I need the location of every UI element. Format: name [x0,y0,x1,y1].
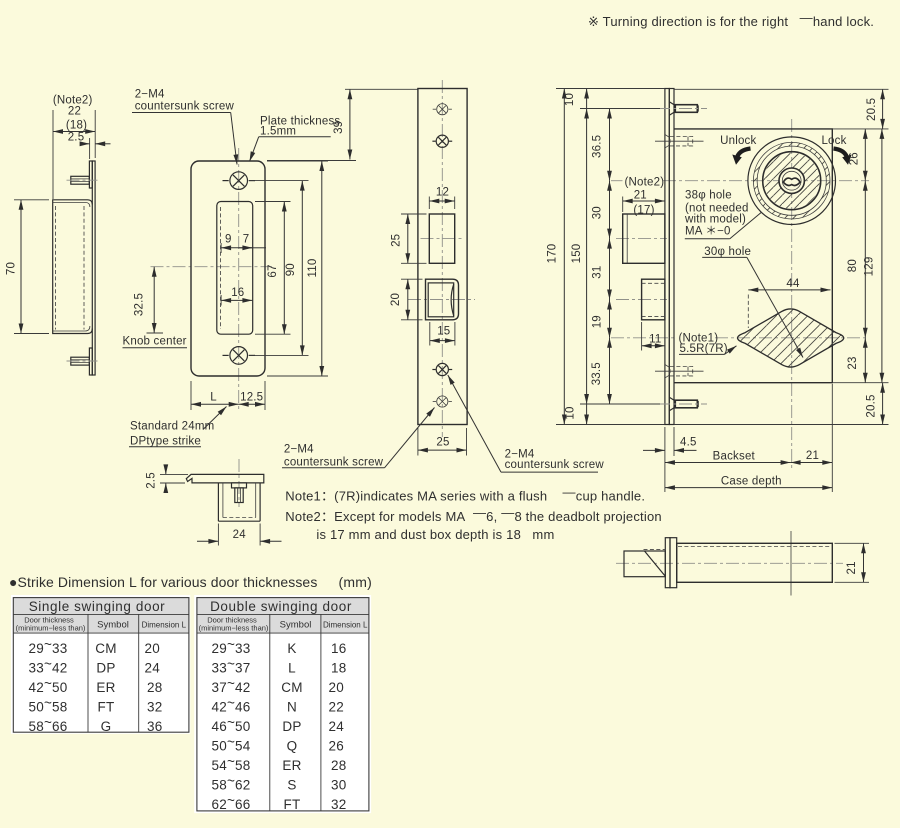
svg-text:70: 70 [6,262,18,275]
svg-text:MA ＊−0: MA ＊−0 [685,226,731,238]
svg-text:(minimum−less than): (minimum−less than) [199,624,269,633]
table 1 border [13,598,189,733]
svg-text:20: 20 [145,641,160,656]
cylinder [748,137,836,225]
svg-text:25: 25 [391,234,403,247]
dust box outline [53,200,93,334]
latch projected [642,279,665,320]
svg-text:30φ hole: 30φ hole [704,246,751,258]
svg-text:32.5: 32.5 [134,293,146,316]
svg-text:countersunk screw: countersunk screw [284,457,384,469]
svg-text:2−M4: 2−M4 [135,89,165,101]
table 2 rows [212,637,347,812]
svg-text:15: 15 [437,326,450,338]
knob centerline [151,266,273,268]
hanging screw [232,483,247,488]
latch centerline [408,299,475,301]
svg-text:Single swinging door: Single swinging door [29,599,166,614]
deadbolt projected [623,214,665,263]
bottom screw [223,347,256,365]
svg-text:2.5: 2.5 [146,472,158,489]
faceplate bars [665,89,669,425]
svg-text:4.5: 4.5 [680,436,697,448]
svg-text:30: 30 [331,778,346,793]
svg-text:30: 30 [592,206,604,219]
svg-text:DP: DP [96,661,115,676]
svg-text:Case depth: Case depth [721,475,782,487]
vertical centerline [238,148,240,410]
svg-text:Unlock: Unlock [720,135,756,147]
svg-text:FT: FT [284,797,301,812]
svg-text:12: 12 [436,187,449,199]
svg-text:23: 23 [847,356,859,369]
screw 2 (bold) [432,135,452,147]
svg-text:80: 80 [847,259,859,272]
svg-text:2−M4: 2−M4 [284,444,314,456]
cylinder axis centerline [791,119,793,468]
svg-text:Lock: Lock [821,135,846,147]
svg-text:with model): with model) [684,214,746,226]
svg-text:11: 11 [649,334,661,346]
latch centerline [616,299,667,301]
svg-text:90: 90 [285,263,297,276]
table 2 header fill [197,598,369,634]
svg-text:24: 24 [233,529,247,541]
collar rings [665,538,670,588]
deadbolt front [429,214,454,263]
svg-text:32: 32 [147,700,162,715]
screw centerline [238,459,240,507]
svg-text:44: 44 [786,278,800,290]
svg-text:28: 28 [147,680,162,695]
faceplate outline [418,89,467,425]
top screw [223,172,256,190]
table 1 rows [29,637,163,734]
svg-text:countersunk screw: countersunk screw [505,459,605,471]
svg-text:32: 32 [331,797,346,812]
svg-text:10: 10 [564,93,576,106]
svg-text:20: 20 [390,293,402,306]
svg-text:ER: ER [282,758,301,773]
svg-text:31: 31 [592,265,604,278]
svg-text:110: 110 [307,259,319,278]
svg-text:22: 22 [329,700,344,715]
table 2 white panel [194,595,371,813]
svg-text:Knob center: Knob center [123,336,187,348]
svg-text:9: 9 [225,234,232,246]
top mounting post [657,102,707,116]
svg-text:18: 18 [331,661,346,676]
bottom screw post [71,357,90,365]
svg-text:N: N [287,700,297,715]
strike plate outline [191,161,265,376]
dust box hidden lines [55,206,57,330]
svg-text:2.5: 2.5 [68,132,85,144]
svg-text:L: L [210,392,217,404]
svg-text:CM: CM [281,680,302,695]
cam centerline [611,337,676,339]
top screw (hidden) [655,135,704,148]
svg-text:20.5: 20.5 [866,98,878,121]
screw 3 (bold) [432,363,452,375]
svg-text:26: 26 [849,152,861,165]
svg-text:21: 21 [634,189,647,201]
svg-text:7: 7 [243,234,250,246]
svg-text:G: G [101,719,112,734]
svg-text:Dimension L: Dimension L [142,621,187,630]
cam tail [624,551,665,577]
svg-text:K: K [287,641,296,656]
svg-text:CM: CM [95,641,116,656]
svg-text:Double swinging door: Double swinging door [210,599,352,614]
svg-text:129: 129 [864,257,876,277]
svg-text:21: 21 [806,450,819,462]
table 2 : double swinging door [194,595,371,813]
table 1 : single swinging door [11,595,190,734]
svg-text:Q: Q [287,739,298,754]
svg-text:19: 19 [592,315,604,328]
box walls [217,483,219,521]
svg-text:28: 28 [331,758,346,773]
svg-text:(minimum−less than): (minimum−less than) [16,624,86,633]
svg-text:36: 36 [147,719,162,734]
svg-text:67: 67 [267,264,279,277]
top screw post [71,176,90,184]
top lip [89,161,92,188]
cam (hatched) [738,309,844,367]
cylinder body [677,543,833,582]
svg-text:25: 25 [436,436,449,448]
svg-text:L: L [288,661,296,676]
svg-text:5.5R(7R): 5.5R(7R) [680,343,728,355]
vertical centerline [441,80,443,437]
extension lines left [556,88,665,90]
svg-text:170: 170 [547,244,559,264]
svg-text:22: 22 [68,106,81,118]
svg-text:26: 26 [329,739,344,754]
svg-text:(Note2): (Note2) [625,177,665,189]
case outline [674,129,832,383]
svg-text:10: 10 [565,406,577,419]
svg-text:countersunk screw: countersunk screw [135,101,235,113]
svg-text:20.5: 20.5 [866,394,878,417]
table 2 border [197,598,369,811]
svg-text:12.5: 12.5 [240,391,263,403]
svg-text:FT: FT [98,700,115,715]
svg-text:39: 39 [333,121,345,134]
bottom screw (hidden) [655,365,704,378]
cylinder horizontal centerline [611,180,623,182]
svg-text:(18): (18) [66,120,87,132]
svg-text:16: 16 [331,641,346,656]
svg-text:24: 24 [145,661,161,676]
flange with lip [186,474,263,483]
svg-text:20: 20 [329,680,344,695]
table 1 header fill [13,598,189,634]
section line [790,531,792,596]
deadbolt centerline [421,238,464,240]
svg-text:21: 21 [846,561,858,574]
svg-text:(17): (17) [633,204,654,216]
svg-text:S: S [287,778,296,793]
svg-text:is 17 mm and dust box depth is: is 17 mm and dust box depth is 18 mm [316,527,554,542]
svg-text:24: 24 [329,719,345,734]
svg-text:38φ hole: 38φ hole [685,190,732,202]
svg-text:ER: ER [96,680,115,695]
svg-text:16: 16 [231,287,244,299]
svg-text:Dimension L: Dimension L [323,621,368,630]
svg-text:150: 150 [571,244,583,264]
table 1 white panel [11,595,190,734]
deadbolt centerline [616,238,667,240]
latch front [426,279,459,320]
bottom lip [89,348,92,375]
svg-text:(mm): (mm) [339,574,372,590]
hole top (plain) [433,104,452,115]
svg-text:Symbol: Symbol [97,620,129,631]
svg-text:Standard 24mm: Standard 24mm [130,421,214,433]
svg-text:DPtype strike: DPtype strike [130,436,201,448]
svg-text:1.5mm: 1.5mm [260,126,296,138]
svg-text:DP: DP [282,719,301,734]
svg-text:●Strike Dimension L for variou: ●Strike Dimension L for various door thi… [9,574,317,590]
svg-text:Symbol: Symbol [280,620,312,631]
hole bottom (plain) [433,396,452,407]
strike plate edge (vertical bar) [92,161,95,375]
svg-text:33.5: 33.5 [591,362,603,385]
centerline [616,562,843,564]
svg-text:Backset: Backset [713,450,756,462]
svg-text:36.5: 36.5 [591,135,603,158]
bottom mounting post [657,397,707,411]
strike slot [217,202,253,335]
